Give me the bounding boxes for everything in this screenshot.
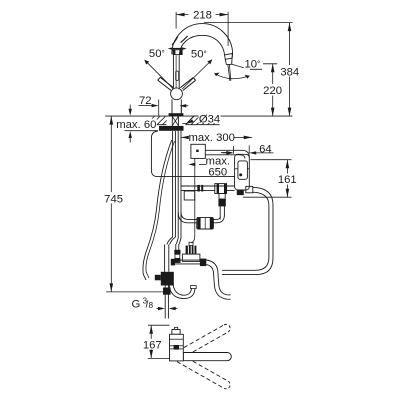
spray bar dashed lower position — [177, 355, 230, 389]
dim 220 line — [272, 64, 274, 116]
control ball joint — [171, 88, 183, 100]
svg-text:Ø34: Ø34 — [199, 113, 220, 125]
svg-text:64: 64 — [259, 143, 272, 155]
solenoid valve body — [182, 254, 200, 261]
deck hatching right — [186, 116, 220, 125]
dim 72 line and arrows — [139, 105, 153, 107]
dim max300 line — [181, 136, 252, 138]
mixing unit body — [235, 154, 250, 190]
hose from fitting down to weight — [219, 206, 221, 219]
vertical fitting collars below connector — [219, 194, 225, 200]
big loop hose right — [222, 188, 273, 275]
svg-text:220: 220 — [263, 85, 282, 97]
dim 64 extensions — [233, 146, 235, 154]
svg-text:max. 60: max. 60 — [116, 119, 156, 131]
dim 220 tick — [263, 63, 277, 65]
horizontal hose to unit — [181, 185, 235, 187]
solenoid valve coil — [186, 246, 197, 255]
threaded shank with cross — [171, 116, 173, 126]
dim G38 arrows — [157, 308, 161, 310]
Ø34 leader — [182, 116, 198, 124]
counterweight — [197, 217, 214, 229]
hose bundle below deck — [172, 131, 174, 237]
manifold horizontal pipe — [173, 259, 204, 261]
u-hose bottom — [169, 276, 195, 299]
spout gooseneck inner arc — [179, 35, 224, 55]
hose coupling bands — [197, 185, 203, 192]
svg-text:8: 8 — [149, 301, 154, 310]
deck hatching left — [146, 116, 167, 125]
deck top line — [105, 115, 292, 117]
dim max60 arrows — [129, 105, 131, 110]
max60 reference underline — [125, 130, 159, 132]
unit internal line — [235, 168, 238, 170]
svg-text:161: 161 — [278, 174, 297, 186]
unit bottom fittings — [237, 190, 244, 195]
mounting nut black — [159, 126, 184, 131]
dim 64 line outside arrows — [223, 152, 227, 154]
dim 384 line — [289, 23, 291, 117]
unit indicator circle — [239, 173, 242, 176]
10 degree swivel arc — [214, 73, 249, 79]
spray head on spout — [224, 54, 232, 55]
box cable down to solenoid — [192, 158, 195, 243]
dim 161 line — [286, 160, 288, 198]
dim 218 line — [176, 14, 228, 16]
supply pipe to angle valve — [164, 245, 166, 272]
vertical hose to solenoid inlet — [175, 244, 177, 250]
dim 161 extensions — [251, 159, 292, 161]
mounting plate rounded path — [151, 131, 234, 177]
spray head bottom view cap — [175, 327, 178, 329]
spray head bottom view body — [170, 334, 184, 361]
deck bottom line left — [141, 124, 167, 126]
lever grip slot detail — [176, 71, 179, 81]
manifold left connector — [171, 259, 175, 266]
faucet body column below ball — [171, 99, 173, 113]
dim 745 bottom extension — [106, 291, 165, 293]
dim 218 extension right — [227, 12, 229, 46]
dim 167 line — [150, 325, 152, 358]
angle dimension tee bar with arrowheads — [168, 47, 187, 50]
lever tilted position bar left — [158, 77, 174, 90]
hose connector inline — [184, 191, 195, 200]
diverter connector block — [215, 184, 227, 194]
svg-text:218: 218 — [193, 10, 212, 22]
arrow on box hose — [226, 151, 232, 154]
svg-text:745: 745 — [104, 193, 123, 205]
dim 72 extension — [158, 100, 160, 116]
lever top cap — [173, 50, 182, 55]
solenoid top pin — [189, 242, 193, 245]
spout gooseneck outer arc — [172, 24, 233, 58]
svg-text:72: 72 — [139, 95, 152, 107]
lever tilted position bar right — [180, 78, 195, 91]
box indicator dot — [196, 150, 199, 152]
svg-text:G: G — [132, 298, 141, 310]
left curving hose — [143, 140, 172, 280]
spray bar horizontal — [183, 353, 231, 361]
pipe collar — [163, 288, 171, 295]
10 degree leader — [232, 64, 244, 68]
spray head detail dark — [174, 345, 179, 350]
spray head nozzle stream lines — [228, 65, 230, 81]
hose from box to mixing unit — [205, 150, 249, 157]
svg-text:max. 300: max. 300 — [188, 132, 234, 144]
supply pipe G3/8 — [164, 286, 166, 319]
weight hose horizontal — [181, 212, 220, 219]
50 degree leader line right with arrow — [182, 61, 211, 90]
dim 745 line — [110, 116, 112, 292]
banded inlet fitting — [174, 250, 180, 255]
hose from manifold curving down right — [206, 260, 230, 295]
mixing unit cartridge — [238, 161, 248, 179]
base flange black — [169, 113, 184, 116]
slash marks above lever — [172, 36, 178, 45]
svg-text:384: 384 — [280, 66, 299, 78]
svg-text:650: 650 — [208, 167, 227, 179]
dim 167 extensions — [148, 324, 170, 326]
dim 384 extension top — [204, 22, 293, 24]
angle valve body — [161, 272, 174, 286]
max650 leader arrow — [199, 163, 206, 165]
text white backgrounds — [102, 10, 300, 350]
dim 218 extension left — [175, 12, 177, 29]
angle valve handle — [155, 275, 161, 281]
spray bar dashed upper position — [178, 324, 230, 358]
electronics box — [191, 144, 205, 158]
lever handle vertical — [172, 54, 174, 88]
deck bottom line right — [186, 124, 220, 126]
svg-text:167: 167 — [143, 339, 162, 351]
bundle kink to supply pipe — [167, 237, 173, 245]
u-hose end cap — [191, 286, 197, 289]
50 degree leader line left with arrow — [145, 61, 173, 89]
manifold right connector — [200, 259, 206, 267]
